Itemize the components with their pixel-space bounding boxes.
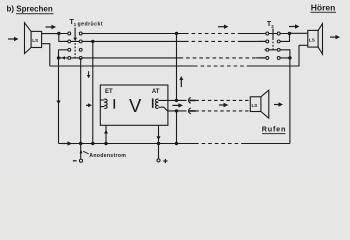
svg-text:AT: AT (152, 89, 160, 95)
svg-text:Anodenstrom: Anodenstrom (89, 153, 126, 159)
svg-text:Hören: Hören (311, 2, 336, 12)
svg-text:LS: LS (32, 38, 38, 43)
svg-text:gedrückt: gedrückt (78, 21, 104, 27)
svg-text:Rufen: Rufen (262, 125, 286, 134)
svg-text:ET: ET (105, 89, 113, 95)
svg-text:b) Sprechen: b) Sprechen (7, 4, 53, 13)
svg-text:V: V (129, 95, 142, 116)
svg-text:LS: LS (309, 38, 315, 43)
svg-text:LS: LS (252, 103, 258, 108)
